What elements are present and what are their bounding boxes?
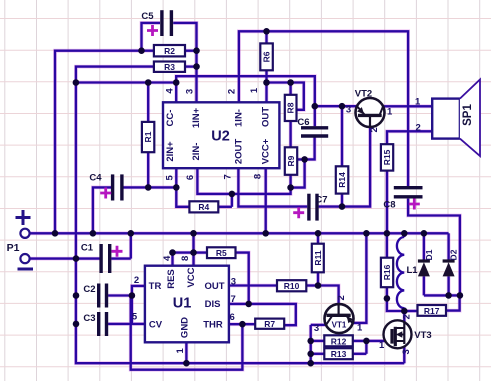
svg-text:3: 3 [185, 89, 196, 94]
svg-text:TR: TR [149, 281, 162, 292]
svg-text:2: 2 [416, 123, 421, 134]
svg-text:R6: R6 [262, 51, 272, 62]
svg-text:8: 8 [180, 256, 191, 261]
svg-text:OUT: OUT [260, 107, 271, 127]
svg-text:3: 3 [346, 105, 351, 116]
svg-text:1: 1 [387, 106, 393, 117]
svg-text:R10: R10 [284, 281, 300, 291]
svg-text:2: 2 [134, 275, 139, 286]
svg-text:R8: R8 [286, 102, 296, 113]
svg-text:C6: C6 [297, 117, 309, 128]
svg-text:CC-: CC- [165, 110, 176, 127]
svg-text:VCC+: VCC+ [260, 138, 271, 164]
svg-text:C2: C2 [83, 284, 95, 295]
svg-text:1IN+: 1IN+ [191, 107, 202, 128]
svg-text:VT2: VT2 [355, 89, 372, 100]
svg-text:U1: U1 [173, 296, 192, 312]
svg-text:R15: R15 [382, 149, 392, 165]
svg-text:L1: L1 [406, 265, 418, 276]
svg-text:C7: C7 [315, 195, 327, 206]
svg-text:1: 1 [379, 340, 385, 351]
svg-text:2OUT: 2OUT [233, 139, 244, 165]
svg-text:R9: R9 [286, 155, 296, 166]
svg-text:R14: R14 [337, 172, 347, 188]
svg-text:CV: CV [149, 319, 163, 330]
svg-text:D2: D2 [448, 249, 458, 260]
svg-text:3: 3 [314, 323, 319, 334]
svg-text:2: 2 [369, 127, 380, 132]
svg-text:5: 5 [165, 174, 176, 180]
svg-text:R1: R1 [143, 131, 153, 142]
svg-text:R5: R5 [216, 248, 227, 258]
svg-text:R2: R2 [164, 46, 175, 56]
svg-text:C1: C1 [81, 243, 94, 254]
svg-text:R12: R12 [331, 336, 347, 346]
svg-text:C8: C8 [383, 200, 395, 211]
svg-text:1: 1 [175, 347, 186, 353]
svg-text:7: 7 [222, 174, 233, 179]
svg-text:4: 4 [162, 255, 173, 261]
svg-text:5: 5 [132, 312, 138, 323]
svg-text:R13: R13 [331, 349, 347, 359]
svg-text:VCC: VCC [186, 267, 197, 287]
svg-text:D1: D1 [424, 249, 434, 260]
svg-text:OUT: OUT [204, 281, 224, 292]
svg-text:P1: P1 [7, 242, 20, 254]
svg-text:VT1: VT1 [332, 321, 347, 330]
svg-text:2: 2 [402, 314, 413, 319]
svg-text:2IN-: 2IN- [191, 143, 202, 161]
svg-text:R11: R11 [313, 250, 323, 265]
svg-text:VT3: VT3 [414, 330, 431, 341]
svg-text:3: 3 [231, 276, 236, 287]
svg-text:1: 1 [357, 322, 363, 333]
svg-text:R16: R16 [382, 264, 392, 280]
svg-text:1: 1 [415, 97, 421, 108]
svg-text:8: 8 [253, 174, 264, 179]
svg-text:SP1: SP1 [462, 104, 474, 126]
svg-text:2: 2 [336, 295, 347, 300]
svg-text:C3: C3 [83, 313, 95, 324]
svg-text:RES: RES [166, 269, 177, 289]
svg-text:6: 6 [230, 312, 235, 323]
svg-text:1IN-: 1IN- [233, 109, 244, 127]
svg-text:1: 1 [249, 87, 260, 93]
svg-text:GND: GND [180, 317, 191, 338]
svg-text:2IN+: 2IN+ [165, 141, 176, 162]
svg-text:R3: R3 [164, 62, 175, 72]
svg-text:C5: C5 [141, 11, 154, 22]
svg-text:THR: THR [203, 319, 223, 330]
svg-text:R7: R7 [264, 319, 275, 329]
svg-text:2: 2 [226, 89, 237, 94]
svg-text:U2: U2 [211, 129, 230, 145]
svg-text:4: 4 [165, 88, 176, 94]
svg-text:3: 3 [401, 349, 412, 354]
svg-text:7: 7 [231, 294, 236, 305]
svg-text:DIS: DIS [205, 299, 221, 310]
svg-text:R17: R17 [424, 306, 440, 316]
svg-text:C4: C4 [89, 173, 102, 184]
svg-text:R4: R4 [198, 202, 209, 212]
svg-text:6: 6 [185, 175, 196, 180]
